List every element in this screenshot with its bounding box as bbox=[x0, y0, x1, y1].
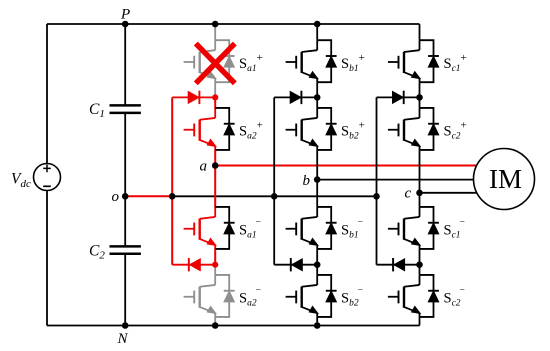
wire leg b: Sb2+ through node b to Sb1- bbox=[316, 150, 318, 207]
junction dot bottom rail leg a bbox=[212, 322, 219, 329]
junction dot J2c bbox=[416, 261, 423, 268]
junction dot o-line / clamp rail b bbox=[271, 193, 278, 200]
IGBT Sa2+ (red) bbox=[184, 108, 216, 150]
diode Dc1- bbox=[420, 207, 439, 249]
wire left bus upper segment bbox=[46, 24, 48, 164]
IGBT Sc2- bbox=[388, 275, 420, 317]
IGBT Sa1+ (gray, faulted) bbox=[184, 40, 216, 82]
junction dot J2b bbox=[314, 261, 321, 268]
wire leg a: Sa1+ to junction J1a (gray) bbox=[214, 82, 216, 97]
junction dot o-line / clamp rail a bbox=[169, 193, 176, 200]
junction dot top rail leg b bbox=[314, 21, 321, 28]
diode Dc2+ bbox=[420, 108, 439, 150]
wire bottom rail N bbox=[47, 325, 420, 327]
svg-text:N: N bbox=[117, 331, 129, 347]
wire leg c: J1c to Sc2+ bbox=[419, 97, 421, 108]
node c dot bbox=[416, 190, 423, 197]
clamp diode Db5 (upper) bbox=[274, 91, 317, 104]
motor IM circle bbox=[474, 149, 535, 210]
svg-text:c: c bbox=[405, 186, 412, 202]
wire leg b: J2b to Sb2- bbox=[316, 265, 318, 275]
wire output line phase a (red) bbox=[215, 165, 477, 167]
diode Db1+ bbox=[317, 40, 336, 82]
wire neutral o-line black section bbox=[172, 195, 376, 197]
wire leg c: rail to Sc1+ bbox=[419, 24, 421, 40]
svg-text:IM: IM bbox=[489, 164, 522, 194]
clamp diode Dc5 (upper) bbox=[377, 91, 420, 104]
junction dot J1b bbox=[314, 94, 321, 101]
wire leg b: Sb1- to J2b bbox=[316, 249, 318, 265]
junction dot o-line / clamp rail c bbox=[373, 193, 380, 200]
IGBT Sb1+ bbox=[286, 40, 318, 82]
wire leg b: J1b to Sb2+ bbox=[316, 97, 318, 108]
clamp diode Db6 (lower) bbox=[274, 258, 317, 271]
wire leg b: rail to Sb1+ bbox=[316, 24, 318, 40]
IGBT Sa1- (red) bbox=[184, 207, 216, 249]
wire output line phase b bbox=[317, 179, 474, 181]
wire leg c: Sc2- to bottom rail bbox=[419, 317, 421, 326]
source Vdc minus sign bbox=[43, 185, 51, 187]
IGBT Sa2- (gray) bbox=[184, 275, 216, 317]
wire leg a: Sa2+ through node a to Sa1- (red) bbox=[214, 150, 216, 207]
junction dot J2a (red) bbox=[212, 262, 218, 268]
clamp diode Dc6 (lower) bbox=[377, 258, 420, 271]
source Vdc circle bbox=[34, 164, 61, 191]
wire leg c: Sc1- to J2c bbox=[419, 249, 421, 265]
diode Da1+ (gray) bbox=[215, 40, 234, 82]
svg-text:o: o bbox=[112, 189, 120, 205]
node b dot bbox=[314, 176, 321, 183]
wire leg c: J2c to Sc2- bbox=[419, 265, 421, 275]
wire leg a: rail to Sa1+ (gray) bbox=[214, 24, 216, 40]
node N dot bbox=[122, 322, 129, 329]
source Vdc plus sign bbox=[43, 165, 51, 173]
IGBT Sc1- bbox=[388, 207, 420, 249]
wire leg c: Sc2+ through node c to Sc1- bbox=[419, 150, 421, 207]
wire leg a: Sa2- to bottom rail (gray) bbox=[214, 317, 216, 326]
junction dot top rail leg a bbox=[212, 21, 219, 28]
IGBT Sb1- bbox=[286, 207, 318, 249]
wire capacitor branch: C2 to bottom rail bbox=[124, 254, 126, 326]
svg-text:b: b bbox=[303, 173, 311, 189]
wire leg a: J1a to Sa2+ (red) bbox=[214, 97, 216, 108]
IGBT Sc1+ bbox=[388, 40, 420, 82]
wire left bus lower segment bbox=[46, 191, 48, 326]
svg-text:a: a bbox=[200, 159, 208, 175]
node a dot bbox=[212, 162, 219, 169]
IGBT Sc2+ bbox=[388, 108, 420, 150]
junction dot bottom rail leg b bbox=[314, 322, 321, 329]
clamp diode Da5 (red, upper) bbox=[172, 91, 215, 104]
wire leg a: J2a to Sa2- (gray) bbox=[214, 265, 216, 275]
node o dot bbox=[122, 193, 129, 200]
IGBT Sb2- bbox=[286, 275, 318, 317]
capacitor C1 bbox=[110, 105, 141, 113]
wire clamp rail b bbox=[273, 97, 275, 264]
clamp diode Da6 (red, lower) bbox=[172, 258, 215, 271]
IGBT Sb2+ bbox=[286, 108, 318, 150]
wire leg c: Sc1+ to J1c bbox=[419, 82, 421, 97]
diode Db2+ bbox=[317, 108, 336, 150]
capacitor C2 bbox=[110, 246, 141, 253]
diode Da2+ (black) bbox=[215, 108, 234, 150]
diode Da1- (black) bbox=[215, 207, 234, 249]
diode Db2- bbox=[317, 275, 336, 317]
diode Da2- (gray) bbox=[215, 275, 234, 317]
wire clamp rail c bbox=[376, 97, 378, 264]
junction dot J1c bbox=[416, 94, 423, 101]
node P dot bbox=[122, 21, 129, 28]
wire leg b: Sb2- to bottom rail bbox=[316, 317, 318, 326]
wire output line phase c bbox=[420, 192, 478, 194]
fault cross X over Sa1+ bbox=[196, 44, 235, 84]
wire capacitor branch: rail to C1 bbox=[124, 24, 126, 105]
diode Dc1+ bbox=[420, 40, 439, 82]
wire leg b: Sb1+ to J1b bbox=[316, 82, 318, 97]
wire leg a: Sa1- to junction J2a (red) bbox=[214, 249, 216, 265]
wire top rail P bbox=[47, 23, 420, 25]
wire neutral o-line red stub bbox=[125, 195, 172, 197]
junction dot J1a (red) bbox=[212, 94, 218, 100]
diode Db1- bbox=[317, 207, 336, 249]
wire clamp rail a (red) bbox=[171, 97, 173, 264]
wire capacitor branch: C1 to C2 bbox=[124, 113, 126, 247]
svg-text:P: P bbox=[120, 7, 130, 23]
diode Dc2- bbox=[420, 275, 439, 317]
